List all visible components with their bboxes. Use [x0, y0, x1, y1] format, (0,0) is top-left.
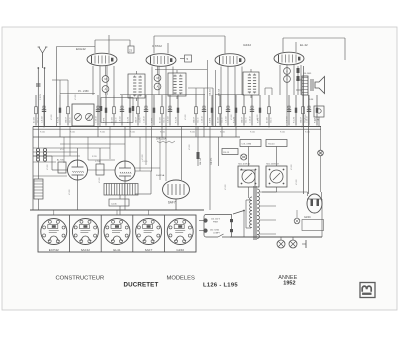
svg-text:47.000: 47.000 [142, 155, 144, 161]
svg-text:C.50.10: C.50.10 [202, 116, 204, 123]
svg-text:C.4.150: C.4.150 [226, 116, 228, 123]
svg-text:304.87: 304.87 [136, 117, 138, 123]
svg-text:C6L.5669: C6L.5669 [303, 73, 311, 75]
svg-text:7011.1159/1.67: 7011.1159/1.67 [266, 164, 279, 166]
svg-text:47.000: 47.000 [69, 190, 71, 196]
svg-text:110. 220 V: 110. 220 V [211, 219, 221, 221]
svg-text:1952: 1952 [283, 280, 295, 286]
svg-text:304.150A: 304.150A [156, 138, 167, 141]
svg-text:230. 50/60: 230. 50/60 [210, 230, 219, 232]
svg-text:MODELES: MODELES [167, 276, 195, 282]
svg-text:47.000: 47.000 [51, 115, 53, 121]
svg-text:47.000: 47.000 [231, 115, 233, 121]
svg-text:C 6TA2: C 6TA2 [152, 44, 162, 48]
svg-text:304.87: 304.87 [194, 117, 196, 123]
svg-text:AL.7.80: AL.7.80 [57, 159, 64, 162]
svg-text:GZ40: GZ40 [176, 248, 184, 252]
svg-text:C4.46: C4.46 [111, 203, 117, 205]
svg-text:304.15: 304.15 [70, 118, 72, 124]
svg-text:304.87: 304.87 [242, 117, 244, 123]
svg-text:R.101: R.101 [130, 132, 135, 134]
svg-text:M: M [104, 78, 106, 81]
svg-text:COMPT: COMPT [213, 232, 221, 234]
svg-text:M: M [156, 77, 158, 80]
svg-text:C41.312: C41.312 [210, 89, 212, 96]
svg-text:EL41: EL41 [113, 248, 121, 252]
svg-text:R.2.2M: R.2.2M [58, 116, 60, 123]
svg-text:304.314: 304.314 [219, 89, 221, 96]
svg-text:1.6M: 1.6M [309, 99, 314, 101]
svg-text:47.000: 47.000 [99, 178, 101, 184]
svg-text:41.500: 41.500 [218, 117, 220, 123]
svg-text:47.000: 47.000 [89, 115, 91, 121]
svg-text:41.500: 41.500 [160, 117, 162, 123]
svg-text:304.87: 304.87 [301, 117, 303, 123]
svg-text:47.000: 47.000 [185, 115, 187, 121]
svg-text:304.15: 304.15 [271, 118, 273, 124]
svg-text:304.87: 304.87 [66, 117, 68, 123]
svg-text:6AF42: 6AF42 [81, 248, 90, 252]
svg-text:6AF7: 6AF7 [145, 248, 153, 252]
svg-text:R.101: R.101 [190, 132, 195, 134]
svg-text:EL 42: EL 42 [300, 43, 308, 47]
svg-text:47.000: 47.000 [225, 185, 227, 191]
svg-text:R.2.2M: R.2.2M [234, 116, 236, 123]
svg-text:DUCRETET: DUCRETET [124, 281, 159, 288]
svg-text:CONSTRUCTEUR: CONSTRUCTEUR [56, 276, 105, 282]
svg-text:47.000: 47.000 [305, 115, 307, 121]
svg-text:41.500: 41.500 [267, 117, 269, 123]
svg-text:6AF7: 6AF7 [168, 201, 176, 205]
svg-text:304.15: 304.15 [198, 118, 200, 124]
svg-text:47.000: 47.000 [139, 115, 141, 121]
svg-text:47.000: 47.000 [189, 145, 191, 151]
svg-text:R.101: R.101 [305, 132, 310, 134]
svg-text:R.220: R.220 [92, 156, 97, 158]
svg-text:47.000: 47.000 [291, 165, 293, 171]
svg-text:47.000: 47.000 [296, 180, 298, 186]
svg-text:R.47K: R.47K [210, 117, 212, 123]
svg-text:41.500: 41.500 [112, 117, 114, 123]
svg-text:C 170: C 170 [40, 94, 42, 100]
svg-text:COL.OSM: COL.OSM [242, 144, 252, 146]
svg-text:15 - 2150: 15 - 2150 [78, 90, 89, 93]
svg-text:C.5.10: C.5.10 [142, 161, 147, 163]
svg-text:304.15: 304.15 [222, 118, 224, 124]
svg-text:41.500: 41.500 [34, 117, 36, 123]
svg-text:ECH42: ECH42 [76, 47, 86, 51]
svg-text:C.4.150: C.4.150 [287, 116, 289, 123]
svg-text:C.50.10: C.50.10 [96, 116, 98, 123]
svg-text:R.101: R.101 [160, 132, 165, 134]
svg-text:C.50.10: C.50.10 [144, 116, 146, 123]
svg-text:47.0: 47.0 [60, 149, 64, 151]
svg-text:R.101: R.101 [70, 132, 75, 134]
svg-text:GZ4C: GZ4C [304, 215, 311, 219]
svg-text:R.2.2M: R.2.2M [128, 116, 130, 123]
svg-text:116.13: 116.13 [223, 152, 230, 154]
svg-text:C.50.10: C.50.10 [250, 116, 252, 123]
svg-text:PRIM: PRIM [213, 221, 218, 223]
svg-text:304.15A: 304.15A [156, 174, 165, 177]
svg-text:304.15: 304.15 [246, 118, 248, 124]
svg-text:304.15: 304.15 [164, 118, 166, 124]
svg-text:47.000: 47.000 [257, 115, 259, 121]
svg-text:R.47K: R.47K [152, 117, 154, 123]
svg-text:R.101: R.101 [40, 132, 45, 134]
svg-text:C.4.150: C.4.150 [42, 116, 44, 123]
svg-text:R.2.2M: R.2.2M [294, 116, 296, 123]
svg-text:R.47K: R.47K [104, 117, 106, 123]
svg-text:C41.375: C41.375 [211, 158, 213, 165]
svg-text:L126 - L195: L126 - L195 [203, 282, 238, 288]
svg-text:R.101: R.101 [220, 132, 225, 134]
svg-text:R.2.2M: R.2.2M [176, 116, 178, 123]
svg-text:304.114: 304.114 [200, 158, 202, 165]
svg-text:R.101: R.101 [100, 132, 105, 134]
svg-text:C.7.86: C.7.86 [95, 161, 101, 163]
svg-text:7011.107/8.60: 7011.107/8.60 [238, 164, 250, 166]
svg-text:750.20: 750.20 [268, 144, 275, 146]
svg-text:IAF42: IAF42 [243, 43, 251, 47]
svg-text:C.4.150: C.4.150 [168, 116, 170, 123]
svg-text:R.101: R.101 [250, 132, 255, 134]
svg-text:304.15: 304.15 [116, 118, 118, 124]
svg-text:C.4.150: C.4.150 [120, 116, 122, 123]
svg-text:47.000: 47.000 [75, 95, 77, 101]
svg-text:47.000: 47.000 [47, 165, 49, 171]
svg-text:ECH42: ECH42 [49, 248, 59, 252]
svg-text:R.101: R.101 [280, 132, 285, 134]
